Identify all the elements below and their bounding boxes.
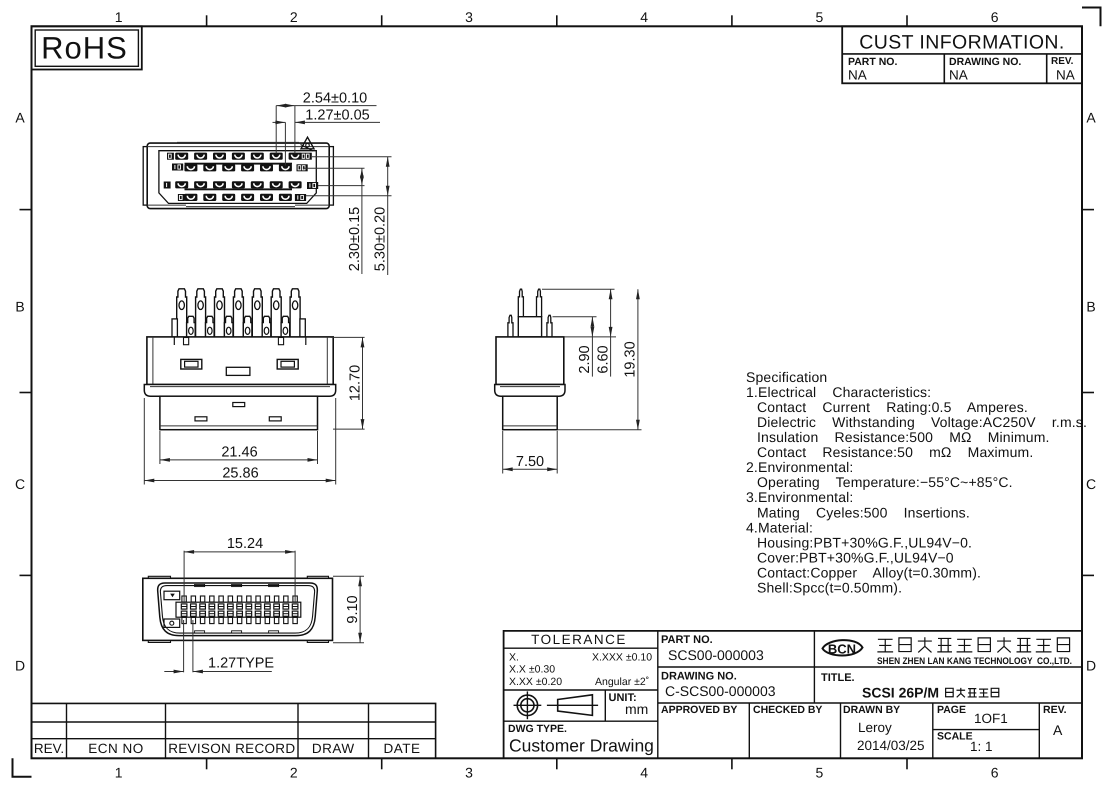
- top view: contact row 3: [175, 181, 188, 188]
- top view: pin label 1: [164, 182, 171, 189]
- svg-text:C-SCS00-000003: C-SCS00-000003: [665, 683, 776, 699]
- svg-text:4.Material:: 4.Material:: [746, 519, 813, 535]
- svg-text:1: 1: 1: 1: [970, 739, 993, 754]
- svg-text:D: D: [1086, 658, 1096, 674]
- company chinese name: [877, 639, 893, 652]
- top view: contact row 1: [175, 153, 188, 160]
- mating view: D-shell inner: [160, 586, 314, 634]
- frame column ticks top: [206, 15, 208, 26]
- front view: center slot: [226, 367, 250, 375]
- top view: pin label 24: [297, 164, 308, 171]
- svg-text:Specification: Specification: [746, 369, 827, 385]
- svg-text:SCALE: SCALE: [937, 731, 973, 743]
- side view: cover lip: [495, 385, 565, 397]
- svg-text:Mating Cyeles:500 Insertions: Mating Cyeles:500 Insertions.: [757, 504, 970, 520]
- svg-text:PAGE: PAGE: [937, 704, 966, 716]
- svg-text:21.46: 21.46: [221, 445, 257, 461]
- svg-text:X.: X.: [509, 652, 519, 664]
- svg-text:D: D: [15, 658, 25, 674]
- dimension 1.27±0.05: [295, 121, 380, 123]
- top view: left end cap: [143, 147, 147, 206]
- svg-text:NA: NA: [1056, 68, 1075, 83]
- svg-text:2014/03/25: 2014/03/25: [857, 738, 925, 753]
- customer information table: [842, 26, 1082, 83]
- top view: pin label 18: [295, 194, 306, 201]
- top view: pin label 10: [172, 164, 183, 171]
- mating view: top tabs: [148, 576, 170, 578]
- svg-text:TITLE.: TITLE.: [821, 672, 855, 684]
- svg-text:A: A: [1053, 722, 1063, 738]
- svg-text:1.27TYPE: 1.27TYPE: [208, 656, 274, 672]
- svg-text:6.60: 6.60: [595, 345, 611, 373]
- svg-text:SCSI 26P/M: SCSI 26P/M: [862, 685, 939, 701]
- svg-text:Angular ±2˚: Angular ±2˚: [595, 676, 649, 688]
- svg-text:2: 2: [290, 765, 298, 781]
- frame row ticks right: [1082, 209, 1094, 211]
- frame row ticks left: [20, 209, 32, 211]
- top view: outer body: [147, 143, 329, 209]
- svg-text:X.X ±0.30: X.X ±0.30: [509, 664, 555, 676]
- mating view: screw hole box: [164, 619, 180, 627]
- svg-text:Cover:PBT+30%G.F.,UL94V−0: Cover:PBT+30%G.F.,UL94V−0: [757, 549, 954, 565]
- dimension 7.50: [502, 431, 504, 474]
- svg-text:REV.: REV.: [1043, 704, 1067, 716]
- svg-text:APPROVED BY: APPROVED BY: [661, 704, 737, 716]
- svg-text:9.10: 9.10: [345, 595, 361, 623]
- svg-text:REV.: REV.: [1051, 56, 1074, 67]
- top view: bottom seam lines: [147, 204, 186, 206]
- svg-text:Contact:Copper Alloy(t=0.30mm: Contact:Copper Alloy(t=0.30mm).: [757, 564, 981, 580]
- title block outline: [504, 631, 1082, 758]
- svg-text:Customer Drawing: Customer Drawing: [509, 736, 654, 756]
- front view: tall rear pins: [177, 289, 187, 338]
- svg-text:A: A: [15, 110, 25, 126]
- svg-text:3: 3: [465, 9, 473, 25]
- svg-text:Contact Current Rating:0.5: Contact Current Rating:0.5 Amperes.: [757, 399, 1028, 415]
- mating view: polarity box with triangle: [164, 591, 180, 600]
- svg-text:SCS00-000003: SCS00-000003: [668, 647, 764, 663]
- mating view: contact ticks row 1: [182, 596, 186, 602]
- svg-text:DRAWING NO.: DRAWING NO.: [949, 56, 1021, 68]
- svg-text:5: 5: [816, 765, 824, 781]
- svg-text:19.30: 19.30: [623, 341, 639, 377]
- front view: right latch window: [277, 359, 298, 369]
- third angle projection symbol: [517, 695, 537, 715]
- svg-text:DWG TYPE.: DWG TYPE.: [508, 723, 567, 735]
- svg-text:12.70: 12.70: [347, 365, 363, 401]
- dimension 2.90: [553, 316, 597, 318]
- svg-text:DATE: DATE: [383, 741, 420, 756]
- svg-text:PART NO.: PART NO.: [848, 56, 897, 68]
- svg-text:TOLERANCE: TOLERANCE: [531, 632, 627, 647]
- front view: lower slots: [233, 403, 245, 407]
- svg-text:Leroy: Leroy: [858, 720, 892, 735]
- top view: corner chamfer near index mark: [301, 145, 314, 152]
- top view: index triangle with circle: [301, 137, 314, 149]
- top view: pin label 4: [167, 153, 174, 160]
- dimension 6.60: [542, 288, 615, 290]
- svg-text:1OF1: 1OF1: [974, 711, 1008, 726]
- mating view: D-shell outer: [158, 583, 318, 636]
- svg-text:Shell:Spcc(t=0.50mm).: Shell:Spcc(t=0.50mm).: [757, 580, 902, 596]
- projection cone: [547, 704, 598, 706]
- svg-text:3: 3: [465, 765, 473, 781]
- front view: insulator edges: [173, 337, 175, 345]
- dimension 5.30±0.20: [312, 156, 392, 158]
- mating view: outer shell rect: [143, 578, 333, 640]
- dimension 2.54±0.10: [295, 105, 377, 107]
- dimension 9.10: [333, 575, 364, 577]
- svg-text:SHEN ZHEN LAN KANG TECHNOLOGY: SHEN ZHEN LAN KANG TECHNOLOGY CO.,LTD.: [877, 656, 1072, 667]
- top view: right end cap: [329, 147, 333, 206]
- svg-text:1: 1: [115, 9, 123, 25]
- svg-text:25.86: 25.86: [222, 465, 258, 481]
- front view: cover lip: [144, 385, 335, 397]
- dimension 1.27TYPE: [183, 620, 185, 672]
- svg-text:DRAWING NO.: DRAWING NO.: [661, 671, 737, 683]
- svg-text:6: 6: [991, 765, 999, 781]
- svg-text:2.54±0.10: 2.54±0.10: [303, 91, 367, 107]
- front view: shell side tabs: [172, 319, 177, 337]
- svg-text:Operating Temperature:−55°C~+: Operating Temperature:−55°C~+85°C.: [757, 474, 1013, 490]
- top view: pin label 26: [301, 153, 312, 160]
- svg-text:NA: NA: [848, 68, 867, 83]
- svg-text:4: 4: [640, 765, 648, 781]
- svg-text:REV.: REV.: [34, 741, 64, 756]
- top view: contact row 4: [184, 194, 197, 201]
- top view: contact row 2: [184, 164, 197, 171]
- svg-text:2.Environmental:: 2.Environmental:: [746, 459, 853, 475]
- svg-text:1.Electrical Characteristics:: 1.Electrical Characteristics:: [746, 384, 931, 400]
- dimension 2.30±0.15: [303, 167, 365, 169]
- side view: front pin pair: [508, 315, 513, 337]
- svg-text:CHECKED BY: CHECKED BY: [753, 704, 822, 716]
- side view: lower body: [503, 396, 558, 430]
- front view: left latch window: [181, 359, 202, 369]
- mating view: contacts row 2: [181, 611, 187, 616]
- BCN logo: [823, 640, 863, 655]
- svg-text:C: C: [15, 476, 25, 492]
- top view: top seam lines: [147, 146, 329, 148]
- top view: pin label 2: [178, 194, 185, 201]
- svg-text:RoHS: RoHS: [41, 31, 128, 66]
- RoHS mark box: [32, 26, 142, 69]
- svg-text:1.27±0.05: 1.27±0.05: [305, 107, 369, 123]
- svg-text:ECN NO: ECN NO: [88, 741, 144, 756]
- svg-text:5.30±0.20: 5.30±0.20: [373, 207, 389, 271]
- svg-text:B: B: [15, 299, 24, 315]
- svg-text:mm: mm: [625, 701, 648, 717]
- corner crop mark bottom-left: [13, 758, 32, 777]
- svg-text:DRAWN BY: DRAWN BY: [843, 704, 900, 716]
- svg-text:DRAW: DRAW: [312, 741, 355, 756]
- svg-text:NA: NA: [949, 68, 968, 83]
- side view: rear pin pair: [518, 289, 523, 317]
- svg-text:7.50: 7.50: [516, 454, 544, 470]
- svg-text:2: 2: [290, 9, 298, 25]
- front view: lower body: [160, 396, 318, 430]
- mating view: contact block: [176, 602, 301, 617]
- corner crop mark top-right: [1082, 8, 1101, 27]
- svg-text:Dielectric Withstanding Volt: Dielectric Withstanding Voltage:AC250V r…: [757, 414, 1087, 430]
- dimension 21.46: [159, 431, 161, 464]
- svg-text:15.24: 15.24: [227, 536, 263, 552]
- top view: pin label 17: [307, 182, 318, 189]
- svg-text:4: 4: [640, 9, 648, 25]
- svg-text:1: 1: [115, 765, 123, 781]
- svg-text:CUST INFORMATION.: CUST INFORMATION.: [859, 31, 1064, 53]
- mating view: bottom tabs: [148, 640, 170, 642]
- front view: upper shell box: [147, 337, 333, 385]
- top view: contact row 2 comb: [185, 163, 293, 165]
- dimension 12.70: [331, 336, 365, 338]
- svg-text:Insulation Resistance:500 MΩ: Insulation Resistance:500 MΩ Minimum.: [757, 429, 1050, 445]
- svg-text:X.XX ±0.20: X.XX ±0.20: [509, 676, 562, 688]
- frame column ticks bottom: [206, 758, 208, 769]
- top view: inner cover outline: [159, 151, 316, 204]
- svg-text:B: B: [1086, 299, 1095, 315]
- svg-text:C: C: [1086, 476, 1096, 492]
- svg-text:5: 5: [816, 9, 824, 25]
- mating view: contacts row 1: [181, 604, 187, 609]
- front view: short front pins: [187, 316, 196, 337]
- dimension 15.24: [183, 551, 185, 603]
- svg-text:A: A: [1086, 110, 1096, 126]
- mating view: bottom edge notches: [195, 631, 205, 633]
- mating view: top edge notches: [195, 584, 205, 586]
- svg-text:3.Environmental:: 3.Environmental:: [746, 489, 853, 505]
- dimension 25.86: [143, 398, 145, 485]
- front view: pin root marks: [184, 338, 189, 345]
- revision history table: [32, 703, 436, 758]
- svg-text:Contact Resistance:50 mΩ Ma: Contact Resistance:50 mΩ Maximum.: [757, 444, 1033, 460]
- side view: pin support block: [518, 317, 541, 337]
- mating view: contact ticks row 2: [182, 617, 186, 623]
- svg-text:2.30±0.15: 2.30±0.15: [347, 207, 363, 271]
- svg-text:REVISON RECORD: REVISON RECORD: [168, 741, 295, 756]
- svg-text:6: 6: [991, 9, 999, 25]
- dimension 19.30: [558, 429, 642, 431]
- side view: main body: [496, 337, 564, 385]
- svg-text:BCN: BCN: [828, 642, 856, 657]
- svg-text:X.XXX ±0.10: X.XXX ±0.10: [592, 652, 652, 664]
- svg-text:Housing:PBT+30%G.F.,UL94V−0.: Housing:PBT+30%G.F.,UL94V−0.: [757, 534, 972, 550]
- svg-text:PART NO.: PART NO.: [661, 634, 713, 646]
- top view: contact row 3 comb: [185, 188, 293, 190]
- svg-text:2.90: 2.90: [577, 345, 593, 373]
